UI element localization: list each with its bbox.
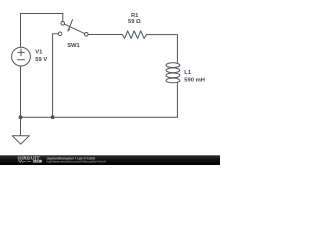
svg-text:R1: R1: [131, 13, 139, 19]
svg-text:http://www.circuitlab.com/c/2e: http://www.circuitlab.com/c/2e43scap/lab…: [47, 159, 106, 163]
svg-text:590 mH: 590 mH: [184, 77, 205, 83]
svg-text:59 Ω: 59 Ω: [128, 19, 141, 25]
junction: V1 negative / ground node: [19, 115, 23, 119]
CircuitLab logo: [18, 156, 42, 164]
inductor L1: [166, 63, 180, 83]
ground: [12, 117, 29, 144]
svg-text:LAB: LAB: [34, 159, 39, 163]
wire: bottom ground rail: [21, 116, 178, 118]
wire: drop from top run to SW1 throw A: [62, 14, 64, 22]
resistor R1: [122, 31, 146, 39]
voltage source V1: [12, 47, 31, 66]
watermark bar: [0, 155, 220, 165]
wire: R1 right lead to top-right corner and down: [147, 35, 178, 63]
junction: SW1 throw B on rail: [51, 115, 55, 119]
wire: V1 positive terminal up to top-left corner: [20, 14, 22, 48]
svg-text:59 V: 59 V: [35, 57, 47, 63]
wire: L1 bottom lead down to rail: [176, 83, 178, 117]
switch SW1: [58, 20, 88, 36]
svg-text:L1: L1: [184, 70, 192, 76]
svg-text:V1: V1: [35, 50, 43, 56]
svg-text:SW1: SW1: [67, 43, 80, 49]
wire: V1 negative terminal down to rail: [20, 66, 22, 117]
wire: SW1 common to R1 left lead: [88, 34, 122, 36]
wire: top horizontal run: [21, 13, 63, 15]
wire: SW1 throw B left and down to ground rail: [53, 34, 59, 117]
